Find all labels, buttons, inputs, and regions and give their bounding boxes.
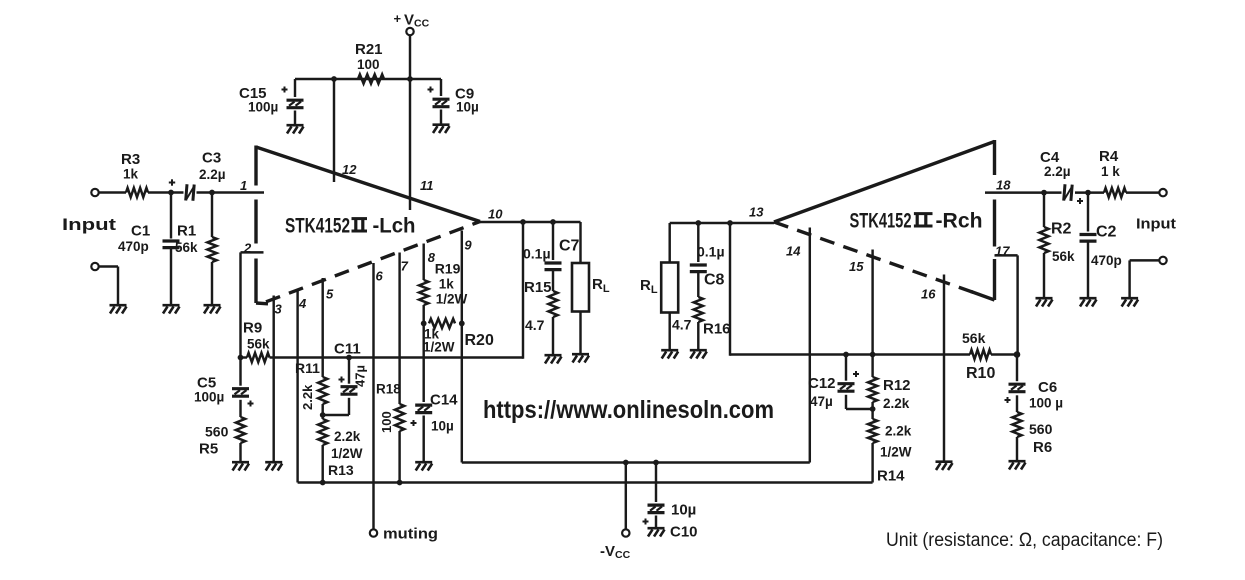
svg-text:12: 12 [342,162,357,177]
svg-text:56k: 56k [247,337,270,352]
lower interconnect wire [462,461,810,463]
svg-text:470p: 470p [118,239,149,254]
capacitor C3 2.2u (input coupling) [186,184,195,201]
pin 15 / R12 line [871,250,873,378]
svg-text:R13: R13 [328,462,354,478]
resistor R1 56k [211,193,213,238]
pin 10 output wire [480,221,581,223]
U2 bottom edge dashed [774,222,974,293]
svg-text:10µ: 10µ [431,419,454,434]
U2 right edge mid segment [993,200,996,247]
muting terminal [370,529,377,536]
node R20 left [421,321,427,327]
node R12/C12 join [870,406,876,412]
resistor R11 2.2k [318,377,327,404]
ground under R2 [1036,298,1053,306]
node R13 on rail [320,480,326,486]
input terminal L (gnd) [91,263,98,270]
supply wire C15 to C9 [295,78,441,80]
svg-text:C1: C1 [131,223,150,240]
svg-text:R12: R12 [883,377,911,394]
svg-text:C14: C14 [430,392,458,409]
ground under R16 [690,350,707,358]
node R18 on rail [397,480,403,486]
svg-text:R19: R19 [435,261,461,277]
ground under C14 [415,462,432,470]
svg-text:R18: R18 [376,382,401,397]
resistor R13 2.2k 1/2W [318,419,327,445]
input terminal L (hot) [91,189,98,196]
node C2 top [1085,190,1091,196]
U2 right edge lower segment [993,259,996,300]
svg-text:6: 6 [376,269,384,284]
ground under C10 [648,528,665,536]
svg-text:C3: C3 [202,150,221,167]
svg-text:R5: R5 [199,441,218,458]
svg-text:-Lch: -Lch [373,215,416,238]
U1 left edge mid segment [254,200,257,244]
capacitor C14 10u [422,323,424,402]
svg-text:STK4152: STK4152 [850,210,912,233]
svg-text:Input: Input [62,215,116,234]
svg-text:470p: 470p [1091,253,1122,268]
capacitor C8 0.1u [697,223,699,262]
capacitor C7 0.1u [552,222,554,260]
capacitor C1 470p [170,193,172,239]
svg-text:7: 7 [401,259,409,274]
resistor R21 100 [358,74,384,83]
op-amp U2 STK4152II-Rch triangle top edge [774,142,995,223]
svg-text:R14: R14 [877,468,905,485]
resistor R10 56k [970,350,991,359]
svg-text:5: 5 [326,287,334,302]
resistor R9 56k [247,353,270,362]
ground under C1 [163,305,180,313]
svg-text:C10: C10 [670,524,698,541]
node on supply rail [407,76,413,82]
svg-text:0.1µ: 0.1µ [523,246,551,262]
ground under input terminal [110,305,127,313]
svg-text:R3: R3 [121,151,140,168]
capacitor C5 100u [239,358,241,386]
svg-text:10µ: 10µ [671,502,696,519]
svg-text:C8: C8 [704,272,725,289]
svg-text:+: + [394,11,402,26]
ground under right input [1121,298,1138,306]
svg-text:R2: R2 [1051,221,1072,238]
wire C11 join [323,414,349,416]
ground under R15 [545,355,562,363]
load resistor RL left [579,222,581,263]
resistor R4 1k [1104,188,1126,197]
node output/feedback [520,219,526,225]
ground under RL left [572,354,589,362]
svg-text:R4: R4 [1099,148,1119,165]
resistor R16 4.7 [694,297,703,322]
U1 bottom corner stub [256,301,268,305]
node: C1/R3 junction [168,190,174,196]
svg-text:Unit (resistance: Ω, capacitan: Unit (resistance: Ω, capacitance: F) [886,530,1163,551]
svg-text:C12: C12 [808,375,836,392]
U2 right edge upper segment [993,140,996,175]
op-amp U1 STK4152II-Lch triangle top edge [256,147,480,222]
svg-text:11: 11 [420,178,434,193]
input terminal R (hot) [1159,189,1166,196]
svg-text:100: 100 [379,411,394,433]
resistor R5 560 [236,417,245,443]
feedback wire right channel [730,353,970,355]
node output/C8 [695,220,701,226]
svg-text:4.7: 4.7 [672,317,692,333]
svg-text:47µ: 47µ [810,394,833,409]
resistor R15 4.7 [548,291,557,317]
svg-text:9: 9 [464,238,472,253]
pin 13 output wire [670,222,774,224]
svg-text:14: 14 [786,244,801,259]
svg-text:C7: C7 [559,238,580,255]
svg-text:4.7: 4.7 [525,317,545,333]
feedback drop right [729,223,731,356]
svg-text:Input: Input [1136,216,1176,233]
ground under R5 [232,462,249,470]
node pin17/C6 [1014,351,1021,358]
svg-text:R16: R16 [703,321,731,338]
svg-text:1k: 1k [123,167,139,182]
resistor R12 2.2k [868,377,877,402]
pin 17 stub [995,254,1018,256]
svg-text:100µ: 100µ [194,390,224,405]
ground under R1 [204,305,221,313]
wire +VCC down to pin 11 [409,35,411,210]
load resistor RL right [668,223,670,263]
wire C3 to pin1 [197,191,265,193]
wire R3 to C3 [148,191,184,193]
polarity + of C4 [1077,198,1083,204]
capacitor C12 47u [845,355,847,381]
node output/C7 [550,219,556,225]
svg-text:17: 17 [995,244,1010,259]
svg-text:2.2k: 2.2k [885,424,912,439]
pin 9 line [461,231,463,463]
svg-text:56k: 56k [962,330,986,346]
node R12 top [870,352,876,358]
svg-text:C11: C11 [334,341,361,358]
svg-text:R9: R9 [243,320,262,337]
pin 16 line [943,275,945,461]
pin 8 line [422,244,424,281]
capacitor C2 470p [1087,193,1089,232]
ground under C9 [433,125,450,133]
svg-text:1 k: 1 k [1101,164,1120,179]
svg-text:C2: C2 [1096,224,1117,241]
pin 18 wire [985,191,1062,193]
svg-text:56k: 56k [1052,249,1075,264]
svg-text:2.2µ: 2.2µ [199,167,226,182]
ground under RL right [661,350,678,358]
svg-text:47µ: 47µ [353,365,368,387]
resistor R14 2.2k 1/2W [868,419,877,443]
svg-text:R21: R21 [355,41,383,58]
ground under C15 [287,125,304,133]
svg-text:R20: R20 [465,332,494,349]
resistor R6 560 [1012,412,1021,437]
wire gnd terminal right [1130,259,1160,261]
feedback wire left channel [241,356,248,358]
wire: left input line [99,191,126,193]
node pin2/C5 [238,355,244,361]
capacitor C10 10u [655,463,657,503]
node: R1/C3 junction [209,190,215,196]
resistor R2 56k [1043,193,1045,227]
svg-text:STK4152: STK4152 [285,215,350,238]
capacitor C11 47u [348,358,350,384]
svg-text:560: 560 [1029,421,1053,437]
-VCC terminal [622,529,629,536]
U2 bottom corner segment [971,292,995,301]
svg-text:-Rch: -Rch [936,210,983,233]
resistor R19 1k 1/2W [419,280,428,305]
svg-text:R10: R10 [966,365,995,382]
svg-text:16: 16 [921,287,936,302]
capacitor C15 100u [294,79,296,97]
svg-text:1/2W: 1/2W [331,446,363,461]
node R20 right [459,321,465,327]
svg-text:2: 2 [243,241,252,256]
svg-text:100µ: 100µ [248,100,278,115]
node C10 on wire [653,460,659,466]
svg-text:2.2µ: 2.2µ [1044,164,1071,179]
svg-text:R15: R15 [524,279,552,296]
ground under pin 3 [265,462,282,470]
svg-text:1/2W: 1/2W [423,340,455,355]
svg-text:1/2W: 1/2W [880,445,912,460]
pin 12 line [333,79,335,182]
svg-text:13: 13 [749,205,764,220]
resistor R3 1k (series input) [126,188,148,197]
svg-text:560: 560 [205,424,229,440]
ground under R6 [1009,461,1026,469]
node pin12/supply [331,76,337,82]
svg-text:R6: R6 [1033,439,1052,456]
polarity + of C3 [169,179,175,185]
U1 left edge lower segment [254,259,257,304]
pin 7 / R18 line [398,253,400,405]
svg-text:muting: muting [383,526,438,543]
-VCC line [625,463,627,530]
pin 6 / muting line [372,263,374,529]
svg-text:2.2k: 2.2k [334,429,361,444]
node R2 top [1041,190,1047,196]
pin 4 line [296,290,298,483]
svg-text:100: 100 [357,57,380,72]
svg-text:18: 18 [996,178,1011,193]
svg-text:10µ: 10µ [456,100,479,115]
svg-text:2.2k: 2.2k [300,384,315,410]
svg-text:R11: R11 [295,360,320,376]
node output/feedback right [727,220,733,226]
input terminal R (gnd) [1159,257,1166,264]
svg-text:R1: R1 [177,223,196,240]
svg-text:10: 10 [488,207,503,222]
pin 2 stub [241,251,264,253]
node C11 top [346,355,352,361]
node -VCC on wire [623,460,629,466]
svg-text:0.1µ: 0.1µ [697,244,725,260]
pin 5 / R11 line [321,278,323,377]
svg-text:1k: 1k [439,277,455,292]
svg-text:3: 3 [275,302,283,317]
+VCC terminal [406,28,413,35]
svg-text:4: 4 [298,296,307,311]
ground under pin 16 [936,462,953,470]
wire feedback drop [522,222,524,359]
node C12 top [843,352,849,358]
pin 14 line [809,228,811,463]
ground under C2 [1080,298,1097,306]
svg-text:100 µ: 100 µ [1029,396,1063,411]
capacitor C6 100u [1016,355,1018,382]
U1 bottom edge dashed [266,222,480,302]
node R11/C11 join [320,412,326,418]
U1 left edge upper segment [254,146,257,186]
capacitor C9 10u [440,79,442,96]
svg-text:C6: C6 [1038,379,1057,396]
capacitor C4 2.2u [1064,184,1073,201]
resistor R20 1k 1/2W [429,319,455,328]
svg-text:15: 15 [849,259,864,274]
wire C12 to R12 node [846,408,873,410]
svg-text:56k: 56k [175,240,198,255]
svg-text:2.2k: 2.2k [883,396,910,411]
resistor R18 100 [395,404,404,431]
svg-text:https://www.onlinesoln.com: https://www.onlinesoln.com [483,396,774,424]
pin 3 line [272,296,274,462]
wire gnd terminal [99,265,118,267]
svg-text:1: 1 [240,178,247,193]
bottom rail (muting net) [298,481,873,483]
